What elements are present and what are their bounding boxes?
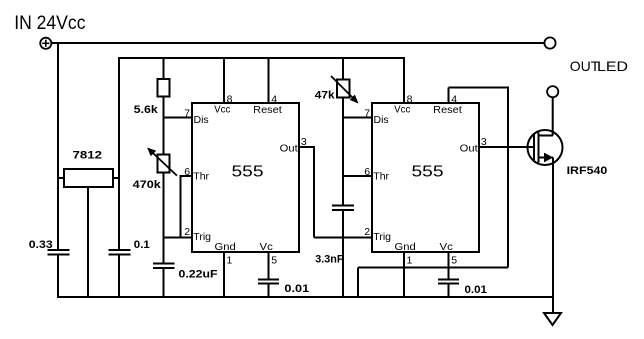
ground symbol: [544, 313, 561, 325]
capacitor 3.3nF: [332, 205, 354, 207]
svg-text:5: 5: [451, 254, 457, 266]
wire Gnd1 pin 1: [223, 252, 225, 298]
wire Out1 stub: [299, 146, 314, 148]
wire return drop to ground rail: [357, 268, 359, 299]
capacitor 0.33: [48, 249, 70, 251]
svg-text:0.1: 0.1: [134, 239, 150, 251]
wire source down: [552, 158, 554, 314]
wire Vc1 pin 5: [268, 252, 270, 280]
svg-text:Reset: Reset: [433, 104, 462, 116]
svg-text:OUT: OUT: [570, 58, 600, 74]
svg-text:Trig: Trig: [193, 231, 211, 243]
wire Out1 vertical: [313, 146, 315, 238]
wire Trig1 stub: [164, 237, 193, 239]
wire Thr1 to Trig1: [180, 175, 182, 238]
wire drain to LED terminal: [552, 97, 554, 135]
wire Reset2 pin 4 up: [448, 88, 450, 104]
potentiometer 47k: [315, 76, 358, 103]
wire below 3.3nF: [342, 210, 344, 298]
svg-text:2: 2: [364, 226, 370, 238]
svg-text:5: 5: [271, 254, 277, 266]
svg-text:Vc: Vc: [440, 241, 453, 253]
wire 7812 output: [113, 177, 119, 179]
svg-text:1: 1: [227, 254, 233, 266]
svg-text:7: 7: [184, 108, 190, 120]
wire below 0.01 #2: [448, 284, 450, 299]
transistor Q IRF540: [528, 130, 608, 177]
wire Vcc2 pin 8: [403, 57, 405, 103]
svg-text:470k: 470k: [133, 179, 162, 191]
wire 5.6k bottom to pot: [163, 97, 165, 155]
wire left vertical from top rail: [57, 42, 59, 250]
svg-text:0.22uF: 0.22uF: [179, 268, 218, 280]
svg-text:555: 555: [412, 164, 444, 181]
svg-text:IRF540: IRF540: [567, 165, 608, 177]
svg-text:2: 2: [184, 226, 190, 238]
IC 555 #2: [364, 94, 487, 267]
svg-text:Vcc: Vcc: [214, 104, 230, 116]
capacitor 0.1: [109, 249, 131, 251]
wire right return vertical: [507, 87, 509, 268]
svg-text:Gnd: Gnd: [395, 241, 416, 253]
resistor 5.6k: [158, 79, 170, 97]
svg-text:Dis: Dis: [374, 114, 389, 126]
svg-text:0.01: 0.01: [284, 283, 309, 295]
wire Dis2 stub: [343, 117, 372, 119]
svg-text:Thr: Thr: [193, 171, 209, 183]
wire Reset1 pin 4: [268, 58, 270, 103]
svg-text:1: 1: [407, 254, 413, 266]
wire below 0.1: [118, 255, 120, 299]
svg-text:Vcc: Vcc: [394, 104, 410, 116]
capacitor 0.22uF: [153, 263, 175, 265]
potentiometer 470k: [133, 148, 177, 191]
svg-text:7: 7: [364, 108, 370, 120]
wire Vcc1 pin 8: [223, 58, 225, 103]
output terminal lower (LED): [547, 86, 558, 97]
wire Thr1 stub: [181, 175, 193, 177]
svg-text:0.33: 0.33: [29, 239, 53, 251]
wire top rail: [51, 42, 544, 44]
svg-text:IN 24Vcc: IN 24Vcc: [14, 12, 86, 34]
svg-text:Out: Out: [460, 143, 478, 155]
wire bottom ground rail: [58, 296, 553, 298]
svg-text:Vc: Vc: [260, 241, 273, 253]
svg-text:3.3nF: 3.3nF: [315, 254, 343, 266]
IC 555 #1: [184, 94, 307, 267]
svg-text:6: 6: [184, 166, 190, 178]
svg-text:5.6k: 5.6k: [134, 104, 159, 116]
wire Gnd2 pin 1: [403, 252, 405, 298]
wire Vc2 pin 5: [448, 252, 450, 280]
wire Thr2 stub: [343, 175, 372, 177]
wire Out1 to Trig2: [314, 237, 372, 239]
svg-text:7812: 7812: [73, 149, 103, 161]
wire return horizontal: [358, 267, 508, 269]
svg-text:47k: 47k: [315, 90, 336, 102]
svg-text:Thr: Thr: [373, 171, 389, 183]
svg-text:LED: LED: [597, 58, 628, 74]
wire 12V vertical: [118, 57, 120, 250]
wire 7812 input: [58, 177, 64, 179]
wire Dis1 stub: [164, 117, 193, 119]
wire 12V rail: [118, 57, 404, 59]
svg-text:0.01: 0.01: [465, 284, 488, 296]
wire 47k bottom down: [342, 98, 344, 206]
wire 5.6k top: [163, 58, 165, 79]
regulator U 7812: [64, 169, 113, 187]
wire pot bottom down: [163, 173, 165, 264]
wire Out2 to gate: [479, 146, 534, 148]
input terminal +: [40, 38, 51, 49]
wire below 0.01 #1: [268, 284, 270, 299]
svg-text:Gnd: Gnd: [215, 241, 236, 253]
svg-text:555: 555: [232, 164, 264, 181]
wire Reset2 horizontal: [449, 87, 509, 89]
wire 47k top: [342, 58, 344, 80]
output terminal top: [544, 37, 555, 48]
svg-text:6: 6: [364, 166, 370, 178]
svg-text:Dis: Dis: [194, 114, 209, 126]
svg-text:Out: Out: [280, 143, 298, 155]
capacitor 0.01 #2: [438, 279, 459, 281]
svg-text:Reset: Reset: [253, 104, 282, 116]
svg-text:Trig: Trig: [373, 231, 391, 243]
wire 7812 ground pin: [87, 187, 89, 297]
wire below 0.22uF: [163, 268, 165, 298]
wire below 0.33: [57, 255, 59, 299]
capacitor 0.01 #1: [258, 279, 279, 281]
